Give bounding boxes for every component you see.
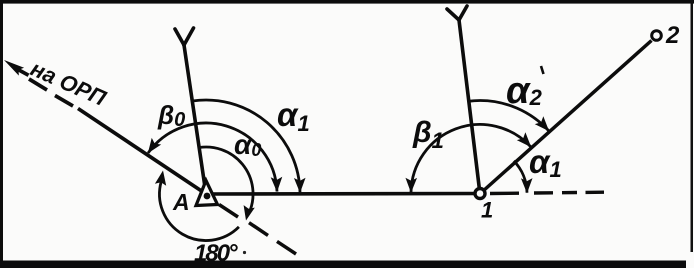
svg-text:1: 1	[481, 198, 493, 223]
point A (station triangle with centre dot)	[196, 181, 218, 206]
label 2	[665, 22, 680, 49]
label beta1	[412, 116, 444, 153]
point 2 (station circle)	[652, 31, 662, 41]
sighting pole at A (line A to Y mark)	[175, 28, 206, 194]
arc alpha1 at A (outer arc from pole direction to baseline)	[192, 100, 300, 192]
wire: dashed prolongation of ОРП line beyond A	[219, 205, 296, 255]
sighting pole at 1 (line 1 to Y mark)	[447, 6, 480, 194]
arc beta0 at A (angle between ОРП direction and baseline, arrows both ends)	[148, 123, 277, 191]
wire: dashed baseline extension right of point 1	[490, 192, 604, 193]
label alpha1 at 1	[529, 143, 562, 182]
arc alpha2 at 1 (from pole direction to line 1-2)	[468, 101, 549, 131]
arc beta1 at 1 (angle between backsight and line 1-2, arrows both ends)	[411, 124, 531, 192]
arc alpha0 at A (inner arc from pole direction to dashed prolongation)	[199, 147, 255, 221]
wire: line to ОРП with arrowhead (direction to reference point)	[4, 60, 206, 194]
label alpha1 at A	[277, 96, 310, 136]
label 1	[481, 198, 493, 223]
wire: baseline A to 1	[206, 192, 481, 196]
arc 180 degrees at A (straight angle of ОРП line, arrow at ОРП end)	[155, 171, 239, 241]
label beta0	[157, 100, 185, 131]
label: на ОРП	[27, 56, 111, 112]
point 1 (station circle)	[475, 189, 485, 199]
label alpha0	[234, 129, 261, 160]
label A	[172, 189, 190, 215]
wire: line 1 to 2	[483, 41, 652, 192]
stray prime mark near alpha2	[541, 66, 544, 74]
svg-text:180°: 180°	[194, 240, 238, 267]
label alpha2	[506, 70, 543, 112]
svg-text:2: 2	[665, 22, 680, 49]
svg-text:A: A	[172, 189, 190, 215]
arc alpha1 at 1 (inner arc from line 1-2 to dashed extension)	[514, 161, 527, 193]
label 180 degrees	[194, 240, 246, 267]
